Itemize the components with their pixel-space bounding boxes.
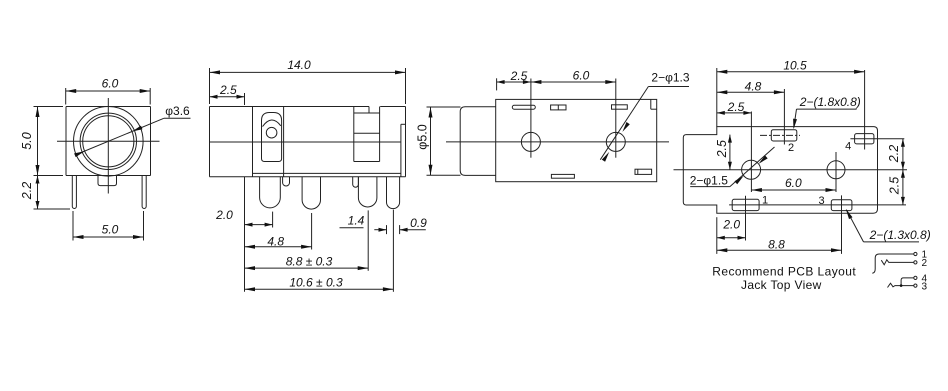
2-phi1.3 leader underline xyxy=(648,86,689,88)
dim 0.9 left arrow xyxy=(379,228,387,232)
svg-text:2.2: 2.2 xyxy=(20,182,34,200)
view2 sleeve contact mid line xyxy=(354,132,380,134)
2-(1.8x0.8) arrow xyxy=(793,119,797,130)
svg-text:3: 3 xyxy=(819,195,825,207)
view2 slider top arc xyxy=(263,120,281,127)
view3 slot bottom-middle xyxy=(551,174,574,178)
dim 0.9 right tick xyxy=(399,225,401,234)
2-(1.3x0.8) leader diagonal xyxy=(847,210,864,242)
dim 10.6 line xyxy=(245,288,394,290)
2-phi1.5 arrow lower xyxy=(735,176,744,185)
svg-text:2.0: 2.0 xyxy=(215,208,233,222)
svg-text:2.5: 2.5 xyxy=(219,83,237,97)
view2 pin post 4 xyxy=(387,177,400,209)
2-(1.8x0.8) leader underline xyxy=(797,108,857,110)
dim 5.0 top extension line xyxy=(34,106,64,108)
dim 8.8 line xyxy=(245,267,369,269)
dim 4.8 line xyxy=(245,246,312,248)
dim 5.0 line left xyxy=(37,107,39,176)
view1 body right edge xyxy=(150,107,152,176)
pad1 vertical centerline xyxy=(745,196,747,241)
schematic sleeve contact line pin3 xyxy=(888,283,914,287)
schematic terminal circle 3 xyxy=(914,284,917,287)
view1 right pin xyxy=(142,176,146,209)
schematic terminal circle 4 xyxy=(914,276,917,279)
view3 dim left tick xyxy=(496,78,498,90)
2-(1.8x0.8) leader diagonal xyxy=(794,109,797,127)
svg-text:10.5: 10.5 xyxy=(783,58,807,72)
svg-text:Recommend PCB Layout: Recommend PCB Layout xyxy=(712,264,856,278)
svg-text:6.0: 6.0 xyxy=(102,77,119,91)
dim 5.0 bottom left ext xyxy=(72,211,74,241)
view2 body left edge xyxy=(209,107,211,177)
svg-text:4: 4 xyxy=(922,274,928,285)
dim 0.9 left tick xyxy=(386,225,388,234)
dim 2.5 right line view4 xyxy=(902,170,904,205)
pad3 vertical centerline xyxy=(841,195,843,254)
pad2 vertical centerline xyxy=(783,89,785,145)
view4 circle-right vertical centerline xyxy=(835,152,837,192)
dim 14.0 right ext xyxy=(405,68,407,104)
dim 6.0 right extension line xyxy=(149,88,151,105)
dim 4.8 line view4 xyxy=(717,91,785,93)
pin3 center ext xyxy=(367,210,369,270)
view1 bottom tab xyxy=(98,176,117,186)
view4 pad 2 xyxy=(771,130,797,141)
dim 2.2 bottom extension line xyxy=(34,208,71,210)
view2 right notch vertical xyxy=(400,124,402,177)
svg-text:1: 1 xyxy=(762,194,768,206)
phi3.6 arrow lower-left xyxy=(74,151,85,157)
dim 14.0 line xyxy=(210,71,406,73)
view1 inner circle (phi3.6 bore) xyxy=(83,116,134,167)
svg-text:2: 2 xyxy=(788,142,794,154)
svg-text:2.5: 2.5 xyxy=(888,177,902,195)
svg-text:2.2: 2.2 xyxy=(887,145,901,163)
dim 2.0 line view4 xyxy=(717,237,746,239)
view1 left pin xyxy=(72,176,76,209)
svg-text:10.6 ± 0.3: 10.6 ± 0.3 xyxy=(289,275,343,289)
view3 slot bottom-right divider xyxy=(637,169,639,174)
pads 1-3 horizontal centerline ext xyxy=(729,204,906,206)
svg-text:5.0: 5.0 xyxy=(20,132,34,149)
svg-text:2: 2 xyxy=(922,258,928,269)
phi5.0 top ext line xyxy=(427,106,461,108)
view2 pin post 1 xyxy=(260,177,281,208)
phi3.6 diameter leader diagonal xyxy=(75,118,164,155)
view1 horizontal centerline xyxy=(57,140,160,142)
svg-text:4.8: 4.8 xyxy=(745,80,762,94)
schematic terminal circle 1 xyxy=(914,252,917,255)
view1 body left edge xyxy=(65,107,67,176)
phi5.0 bottom ext line xyxy=(427,174,461,176)
view1 body top edge xyxy=(66,106,151,108)
view3 slot bottom-right xyxy=(635,169,652,174)
2-(1.3x0.8) arrow xyxy=(846,209,853,219)
dim 6.0 line view3 xyxy=(531,81,616,83)
view1 middle circle xyxy=(80,113,136,169)
view2 sleeve contact right edge xyxy=(379,107,381,162)
2-phi1.3 leader diagonal xyxy=(600,87,648,160)
view4 bottom-left ext line xyxy=(716,217,718,254)
schematic tip contact line pin1 xyxy=(872,254,913,273)
dim 0.9 right line xyxy=(400,229,426,231)
svg-text:φ5.0: φ5.0 xyxy=(416,124,430,150)
dim 2.5 line view4 top xyxy=(717,112,752,114)
view1 outer circle xyxy=(74,107,144,177)
view4 hole circle right xyxy=(827,161,845,179)
view2 slider circle xyxy=(266,127,277,138)
schematic branch line pin4 xyxy=(901,278,914,286)
svg-text:2.5: 2.5 xyxy=(510,69,528,83)
view2 stub near pin3 xyxy=(353,177,359,187)
view2 internal bottom line xyxy=(253,172,401,174)
dim 2.5 vertical line view4 left xyxy=(729,135,731,170)
view2 sleeve contact notch xyxy=(368,107,370,114)
view1 vertical centerline xyxy=(107,98,109,194)
svg-text:8.8 ± 0.3: 8.8 ± 0.3 xyxy=(286,254,333,268)
svg-text:2−(1.3x0.8): 2−(1.3x0.8) xyxy=(869,228,931,242)
view2 sleeve contact top line xyxy=(354,112,380,114)
view2 body bottom edge xyxy=(210,176,406,178)
view2 body top edge right part xyxy=(380,106,405,108)
dim 2.2 line view4 xyxy=(902,139,904,170)
view2 sleeve contact left edge xyxy=(353,107,355,162)
svg-text:8.8: 8.8 xyxy=(768,237,785,251)
view1 body bottom edge xyxy=(66,175,151,177)
pad4 horizontal centerline ext xyxy=(850,138,904,140)
dim 6.0 line xyxy=(66,90,151,92)
view2 bore centerline xyxy=(210,141,401,143)
dim 2.0 line xyxy=(245,224,273,226)
pad4 vertical centerline xyxy=(864,70,866,150)
schematic switch contact line pin2 xyxy=(881,260,913,265)
phi3.6 leader underline xyxy=(164,117,191,119)
view4 horizontal centerline xyxy=(674,169,908,171)
view2 internal vertical line B xyxy=(283,107,285,177)
phi5.0 dim line xyxy=(430,107,432,175)
svg-text:4.8: 4.8 xyxy=(267,234,284,248)
view2 internal vertical line A xyxy=(252,107,254,177)
view2 sleeve contact bottom line xyxy=(354,161,380,163)
dim text 2-phi1.5 xyxy=(689,175,730,186)
pin1 center ext xyxy=(272,212,274,228)
dim 1.4 leader underline xyxy=(340,227,364,229)
view3 body xyxy=(496,99,657,181)
dim 10.5 line xyxy=(717,71,865,73)
view3 slot top-left xyxy=(512,105,535,109)
view3 slot top-middle xyxy=(551,105,566,110)
svg-text:0.9: 0.9 xyxy=(410,216,427,230)
view3 horizontal centerline xyxy=(446,141,669,143)
view3 circle2 vertical centerline xyxy=(615,79,617,158)
view2 stub near pin1 xyxy=(283,177,290,186)
dim 2.5 line view3 xyxy=(497,81,531,83)
schematic junction dot xyxy=(900,284,903,287)
dim 2.5 tick xyxy=(244,93,246,105)
pad2 horizontal centerline xyxy=(760,134,800,136)
dim 2.2 line left xyxy=(37,176,39,210)
view4 left ext line xyxy=(716,68,718,127)
dim 6.0 left extension line xyxy=(65,88,67,105)
svg-text:2.5: 2.5 xyxy=(715,140,729,158)
svg-text:4: 4 xyxy=(845,141,851,153)
view4 hole circle left xyxy=(742,160,761,179)
dim 0.9 left line xyxy=(374,229,386,231)
view4 pad 3 xyxy=(831,200,852,211)
2-phi1.5 leader underline xyxy=(690,186,730,188)
view4 circle-left vertical centerline xyxy=(750,112,752,193)
2-phi1.5 arrow upper xyxy=(759,155,768,164)
svg-text:Jack Top View: Jack Top View xyxy=(741,278,822,292)
view2 body top edge left part xyxy=(210,106,370,108)
view2 right notch horizontal xyxy=(401,123,406,125)
2-phi1.3 arrow lower xyxy=(602,152,609,162)
view3 circle1 vertical centerline xyxy=(530,79,532,158)
svg-text:2−(1.8x0.8): 2−(1.8x0.8) xyxy=(799,95,861,109)
svg-text:5.0: 5.0 xyxy=(102,223,119,237)
dim 5.0 bottom extension line xyxy=(34,175,64,177)
2-(1.3x0.8) leader underline xyxy=(864,241,920,243)
view3 hole circle 1 xyxy=(521,132,540,151)
svg-text:2−φ1.5: 2−φ1.5 xyxy=(690,174,728,188)
view3 corner notch vertical xyxy=(650,99,652,109)
view3 corner notch horizontal xyxy=(651,108,657,110)
view4 pcb outline xyxy=(683,127,877,214)
2-phi1.3 arrow upper xyxy=(622,122,629,132)
dim 0.9 right arrow xyxy=(400,228,408,232)
view3 hole circle 2 xyxy=(606,132,625,151)
2-phi1.5 leader diagonal xyxy=(730,147,775,187)
dim 2.5 line xyxy=(210,96,245,98)
view2 datum extension line xyxy=(244,177,246,292)
pin2 center ext xyxy=(311,213,313,250)
view2 switch slider body xyxy=(262,113,282,162)
dim 5.0 bottom right ext xyxy=(143,211,145,241)
svg-text:6.0: 6.0 xyxy=(785,176,802,190)
dim 5.0 bottom line xyxy=(73,236,144,238)
svg-text:2.5: 2.5 xyxy=(727,100,745,114)
svg-text:14.0: 14.0 xyxy=(287,58,311,72)
dim 6.0 line view4 xyxy=(751,189,836,191)
view2 pin post 3 xyxy=(358,177,377,207)
svg-text:2.0: 2.0 xyxy=(722,218,740,232)
dim 8.8 line view4 xyxy=(717,249,842,251)
view3 slot top-right xyxy=(612,105,628,109)
view3 slot top-middle divider xyxy=(557,105,559,110)
svg-text:φ3.6: φ3.6 xyxy=(165,104,190,118)
schematic terminal circle 2 xyxy=(914,261,917,264)
pin4 center ext xyxy=(392,210,394,292)
svg-text:1.4: 1.4 xyxy=(348,213,365,227)
view2 body right edge xyxy=(405,107,407,177)
view3 barrel xyxy=(460,107,496,176)
phi3.6 arrow upper-right xyxy=(132,126,143,132)
dim 14.0 left ext xyxy=(209,68,211,104)
svg-text:6.0: 6.0 xyxy=(573,68,590,82)
svg-text:2−φ1.3: 2−φ1.3 xyxy=(651,71,689,85)
view4 pad 1 xyxy=(732,199,759,210)
view2 pin post 2 xyxy=(302,177,320,209)
view4 pad 4 xyxy=(855,134,874,144)
